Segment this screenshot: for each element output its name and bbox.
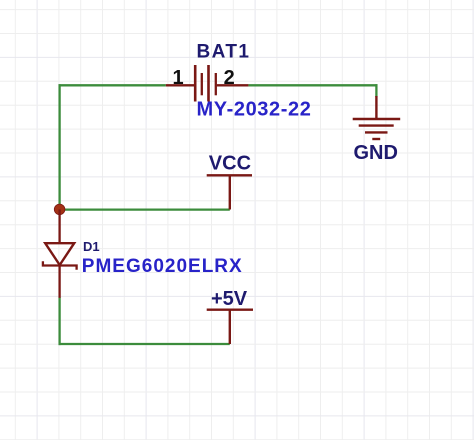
wire: vertical, D1 cathode down to bottom rail — [58, 297, 60, 345]
wire: vertical drop into GND symbol — [375, 84, 377, 97]
wire: vertical left rail down to junction — [58, 84, 60, 206]
junction node — [54, 204, 65, 215]
svg-text:GND: GND — [354, 142, 398, 164]
power symbol GND — [353, 96, 401, 139]
wire: horizontal bottom rail to +5V pin — [59, 343, 230, 345]
wire: horizontal, BAT1 pin 1 to left rail — [59, 84, 166, 86]
svg-text:+5V: +5V — [211, 288, 248, 310]
power symbol +5V — [207, 310, 253, 344]
svg-text:D1: D1 — [83, 239, 100, 254]
wire: horizontal, junction to VCC pin — [60, 208, 230, 210]
power symbol VCC — [207, 175, 252, 209]
svg-text:MY-2032-22: MY-2032-22 — [197, 99, 312, 121]
svg-text:PMEG6020ELRX: PMEG6020ELRX — [82, 256, 243, 277]
diode D1 — [43, 210, 77, 298]
svg-text:1: 1 — [172, 67, 183, 89]
battery BAT1 — [166, 65, 249, 102]
svg-text:VCC: VCC — [209, 153, 251, 175]
svg-text:BAT1: BAT1 — [197, 41, 251, 62]
wire: horizontal, BAT1 pin 2 to GND drop — [248, 84, 377, 86]
svg-text:2: 2 — [224, 67, 235, 89]
